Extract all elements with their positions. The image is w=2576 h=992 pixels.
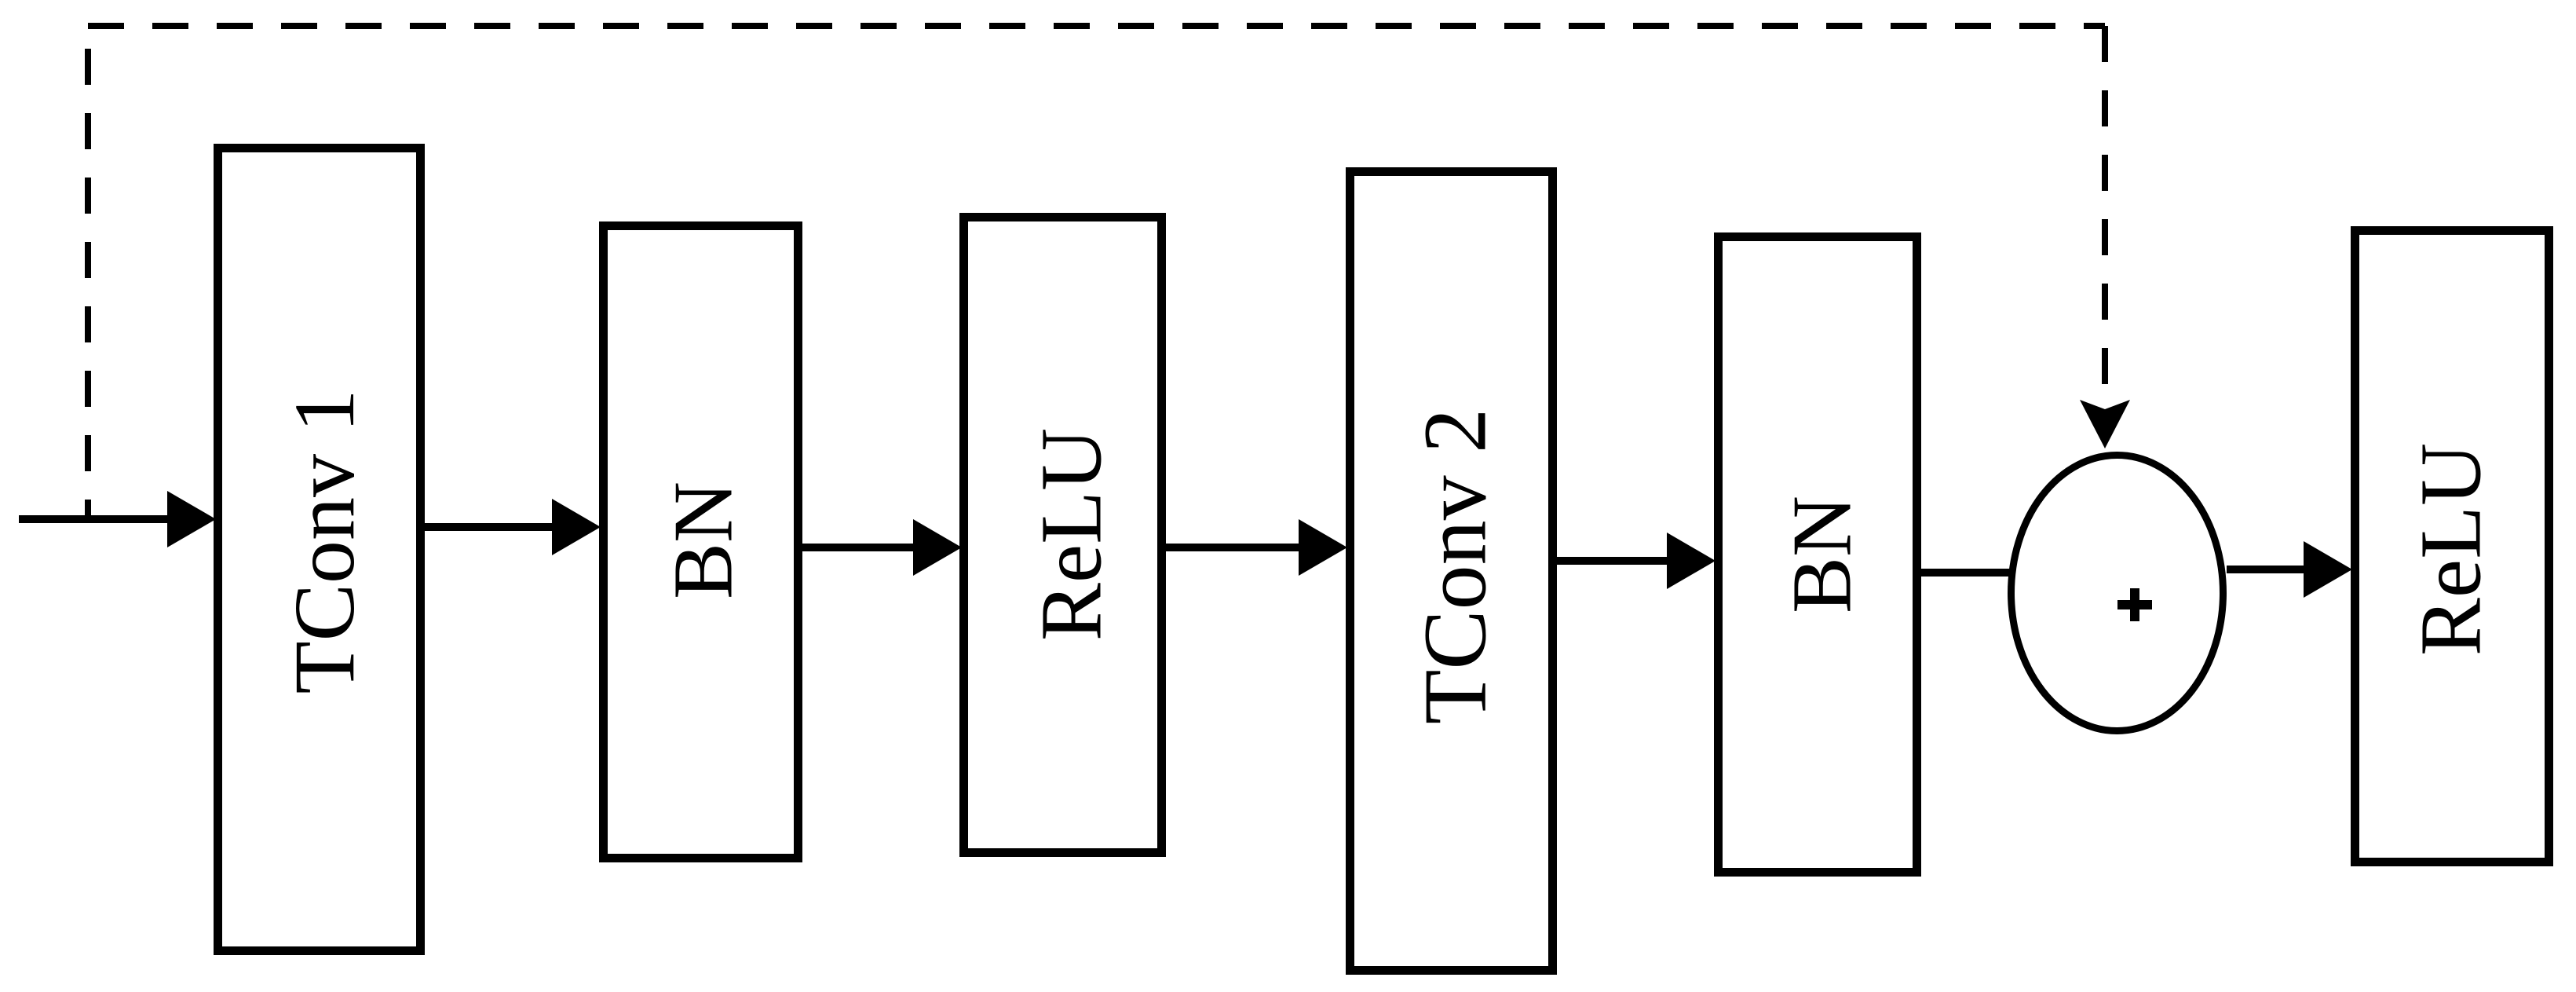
arrowhead of dashed skip-connection into adder	[2080, 400, 2130, 448]
adder node (ellipse with plus)	[2011, 456, 2223, 731]
block BN (second)	[1719, 237, 1917, 873]
wire: input arrow into TConv 1	[19, 491, 216, 547]
svg-text:ReLU: ReLU	[2403, 443, 2500, 656]
block TConv 2	[1350, 172, 1553, 971]
svg-text:BN: BN	[1776, 496, 1869, 613]
wire: arrow adder to ReLU	[2227, 541, 2352, 598]
wire: dashed skip-connection, top horizontal segment	[88, 23, 2105, 29]
wire: arrow TConv 1 to BN	[425, 499, 601, 555]
wire: BN to adder (no arrowhead)	[1921, 569, 2010, 577]
block TConv 1	[218, 148, 421, 951]
block ReLU (second)	[2355, 231, 2549, 862]
wire: arrow TConv 2 to BN	[1557, 533, 1716, 589]
svg-text:TConv 1: TConv 1	[276, 389, 372, 694]
svg-text:BN: BN	[657, 481, 751, 599]
block BN (first)	[604, 226, 798, 858]
block ReLU (first)	[964, 218, 1162, 853]
svg-text:TConv 2: TConv 2	[1405, 408, 1505, 724]
svg-text:ReLU: ReLU	[1024, 428, 1120, 641]
wire: arrow ReLU to TConv 2	[1165, 519, 1347, 576]
wire: dashed skip-connection, left vertical segment	[85, 26, 91, 517]
wire: arrow BN to ReLU	[802, 519, 962, 576]
wire: dashed skip-connection, right vertical segment	[2102, 26, 2108, 397]
